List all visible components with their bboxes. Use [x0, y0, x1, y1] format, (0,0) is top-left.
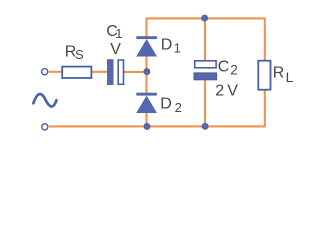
svg-text:2: 2: [175, 100, 182, 115]
wire: top rail from D1 cathode up, across to RL branch: [147, 18, 265, 60]
svg-text:V: V: [110, 41, 121, 58]
svg-text:S: S: [75, 47, 84, 62]
svg-text:2 V: 2 V: [215, 82, 238, 99]
label D2: [160, 95, 182, 115]
junction node A (C1/D1/D2 tap): [144, 69, 150, 75]
capacitor C2 top plate (outline): [195, 61, 216, 68]
junction node: D2 anode on bottom rail: [144, 123, 150, 129]
svg-text:L: L: [286, 69, 294, 85]
svg-text:R: R: [273, 65, 285, 82]
resistor RL body: [258, 61, 270, 90]
svg-text:1: 1: [115, 26, 122, 41]
diode D2 cathode bar: [136, 93, 157, 96]
label D1: [161, 36, 181, 55]
wire: C2 branch from top rail: [204, 18, 206, 60]
svg-text:D: D: [161, 36, 173, 53]
capacitor C1 left plate (solid): [107, 59, 114, 85]
terminal: top-left input: [42, 69, 48, 75]
svg-text:C: C: [218, 58, 230, 75]
wire: C1 to node A: [124, 71, 147, 73]
wire: bottom rail from RL branch to bottom terminal: [49, 90, 265, 126]
junction node: C2 tap on bottom rail: [202, 123, 208, 129]
wire: D2 anode down to bottom rail: [145, 113, 147, 127]
wire: RS to C1: [91, 71, 108, 73]
capacitor C1 right plate (outline): [118, 60, 123, 84]
wire: C2 branch to bottom rail: [204, 80, 206, 126]
junction node: C2 tap on top rail: [202, 15, 208, 21]
AC source sine symbol: [33, 94, 56, 107]
terminal: bottom-left input: [42, 124, 48, 130]
diode D1 cathode bar: [136, 36, 157, 39]
diode D2 triangle: [136, 96, 157, 114]
wire: top terminal to RS: [49, 71, 63, 73]
wire: D1 anode down to node A and on to D2 cathode: [145, 56, 147, 93]
svg-text:D: D: [160, 95, 172, 112]
label RL: [273, 65, 294, 86]
svg-text:2: 2: [230, 63, 238, 78]
label RS: [65, 44, 84, 62]
diode D1 triangle: [136, 39, 157, 57]
resistor RS body: [62, 67, 91, 78]
capacitor C2 bottom plate (solid): [194, 73, 217, 80]
svg-text:1: 1: [174, 40, 181, 55]
label C2: [218, 58, 238, 77]
label C1: [106, 23, 122, 41]
